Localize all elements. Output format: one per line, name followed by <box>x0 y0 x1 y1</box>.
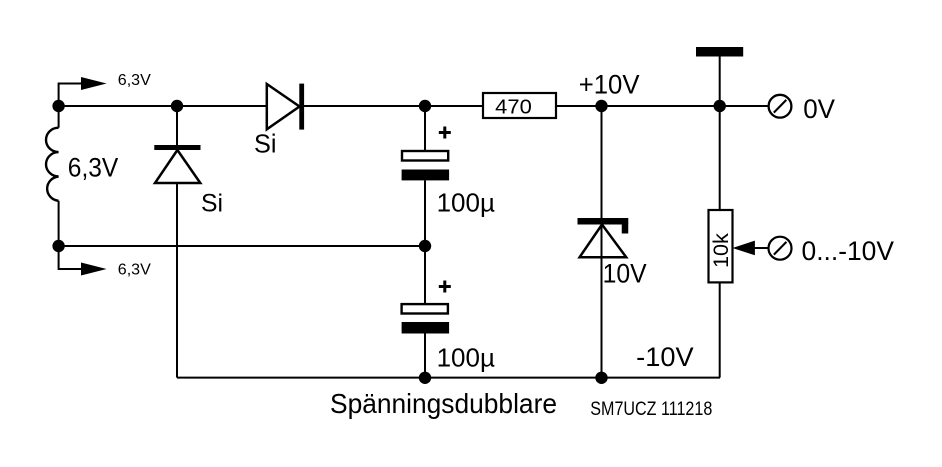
svg-text:6,3V: 6,3V <box>118 262 151 279</box>
svg-text:10k: 10k <box>709 233 733 268</box>
svg-text:Spänningsdubblare: Spänningsdubblare <box>330 388 557 419</box>
svg-text:470: 470 <box>495 95 532 118</box>
svg-text:100µ: 100µ <box>437 342 495 372</box>
svg-text:Si: Si <box>201 190 223 218</box>
svg-text:10V: 10V <box>603 259 647 289</box>
svg-text:6,3V: 6,3V <box>68 152 119 182</box>
svg-text:0...-10V: 0...-10V <box>802 236 895 266</box>
svg-text:100µ: 100µ <box>437 188 495 218</box>
svg-text:6,3V: 6,3V <box>118 72 151 89</box>
svg-text:SM7UCZ 111218: SM7UCZ 111218 <box>590 399 712 420</box>
svg-text:0V: 0V <box>803 94 835 124</box>
svg-text:+10V: +10V <box>579 69 640 99</box>
svg-text:-10V: -10V <box>636 342 694 372</box>
svg-text:Si: Si <box>254 131 277 159</box>
